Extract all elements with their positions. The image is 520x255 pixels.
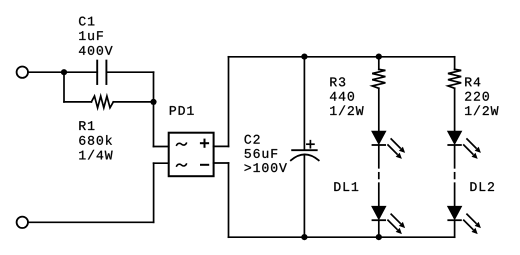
wire to terminal T2 [28, 221, 153, 223]
label 56uF @(243.8,157.8) [245, 149, 278, 158]
wire node A down [63, 72, 65, 102]
resistor R3 [372, 69, 385, 88]
PD1 AC symbol bottom [177, 164, 187, 166]
label C1 @(78.3,25.4) [79, 17, 94, 26]
label PD1 @(168.3,115.4) [170, 106, 194, 115]
dash segment DL2 [454, 173, 456, 179]
label 1uF @(78.3,40.0) [79, 31, 103, 40]
wire node B vertical [153, 72, 155, 146]
label 440 @(329.3,100.6) [330, 92, 354, 101]
wire to PD1 pin AC1 [154, 146, 169, 148]
capacitor C2 curved plate [291, 154, 319, 160]
wire PD1 plus out [214, 145, 229, 147]
wire R4 top [454, 57, 456, 70]
bottom rail [229, 236, 455, 238]
wire up to top rail [228, 57, 230, 147]
resistor R4 [448, 69, 461, 88]
wire LED2a to dash [454, 146, 456, 168]
dash segment DL1 [378, 173, 380, 179]
wire dash to LED2b [454, 183, 456, 206]
wire LED2b to bottom rail [454, 221, 456, 237]
wire down to bottom rail [228, 163, 230, 237]
junction C2 bottom [301, 234, 307, 240]
terminal T2 (bottom input) [17, 217, 28, 228]
LED DL1 upper [372, 131, 406, 159]
PD1 plus symbol [201, 142, 208, 144]
label 1/2W @(329.3,115.0) [330, 105, 363, 115]
LED DL2 lower [447, 206, 481, 234]
wire dash to LED1b [378, 183, 380, 206]
wire R3 top [378, 57, 380, 70]
label R4 @(464.2,86.2) [465, 78, 480, 87]
label 1/4W @(78.3,159.4) [79, 150, 112, 160]
junction DL1 bottom [376, 234, 382, 240]
terminal T1 (top input) [17, 67, 28, 78]
LED DL2 upper [447, 131, 481, 159]
wire LED1b to bottom rail [378, 221, 380, 237]
PD1 AC symbol top [177, 143, 187, 145]
top rail [229, 56, 455, 58]
PD1 minus symbol [201, 164, 208, 166]
wire C1 right plate to node B [106, 71, 153, 73]
label DL2 @(469.4,191.0) [470, 182, 494, 191]
junction node A [61, 69, 67, 75]
label R1 @(78.3,130.0) [79, 121, 94, 130]
label 1/2W @(464.2,115.0) [465, 105, 498, 115]
junction C2 top [301, 54, 307, 60]
junction node B [150, 99, 156, 105]
label 400V @(78.3,54.8) [79, 46, 113, 55]
wire C2 bottom [303, 155, 305, 238]
wire C2 top [303, 57, 305, 150]
wire down left [153, 163, 155, 222]
label 680k @(78.3,144.7) [79, 135, 112, 145]
label >100V @(243.8,172.0) [245, 163, 287, 172]
junction R3 top [376, 54, 382, 60]
wire PD1 pin AC2 [154, 162, 169, 164]
wire node A to C1 left plate [64, 71, 97, 73]
label C2 @(243.8,143.6) [245, 135, 260, 144]
wire LED1a to dash [378, 146, 380, 168]
label DL1 @(333.3,191.0) [334, 182, 358, 191]
wire to R1 [64, 101, 91, 103]
C2 polarity plus [307, 143, 314, 145]
capacitor C2 positive plate [292, 149, 317, 151]
capacitor C1 [96, 61, 98, 84]
wire R1 to node B [113, 101, 153, 103]
resistor R1 [91, 96, 113, 108]
bridge rectifier PD1 [169, 133, 214, 177]
wire PD1 minus out [214, 162, 229, 164]
label R3 @(329.3,86.2) [330, 77, 345, 86]
wire R3 to LED [378, 88, 380, 131]
wire T1 to node A [28, 71, 64, 73]
label 220 @(464.2,100.6) [465, 92, 489, 101]
LED DL1 lower [372, 206, 406, 234]
wire R4 to LED [454, 88, 456, 131]
